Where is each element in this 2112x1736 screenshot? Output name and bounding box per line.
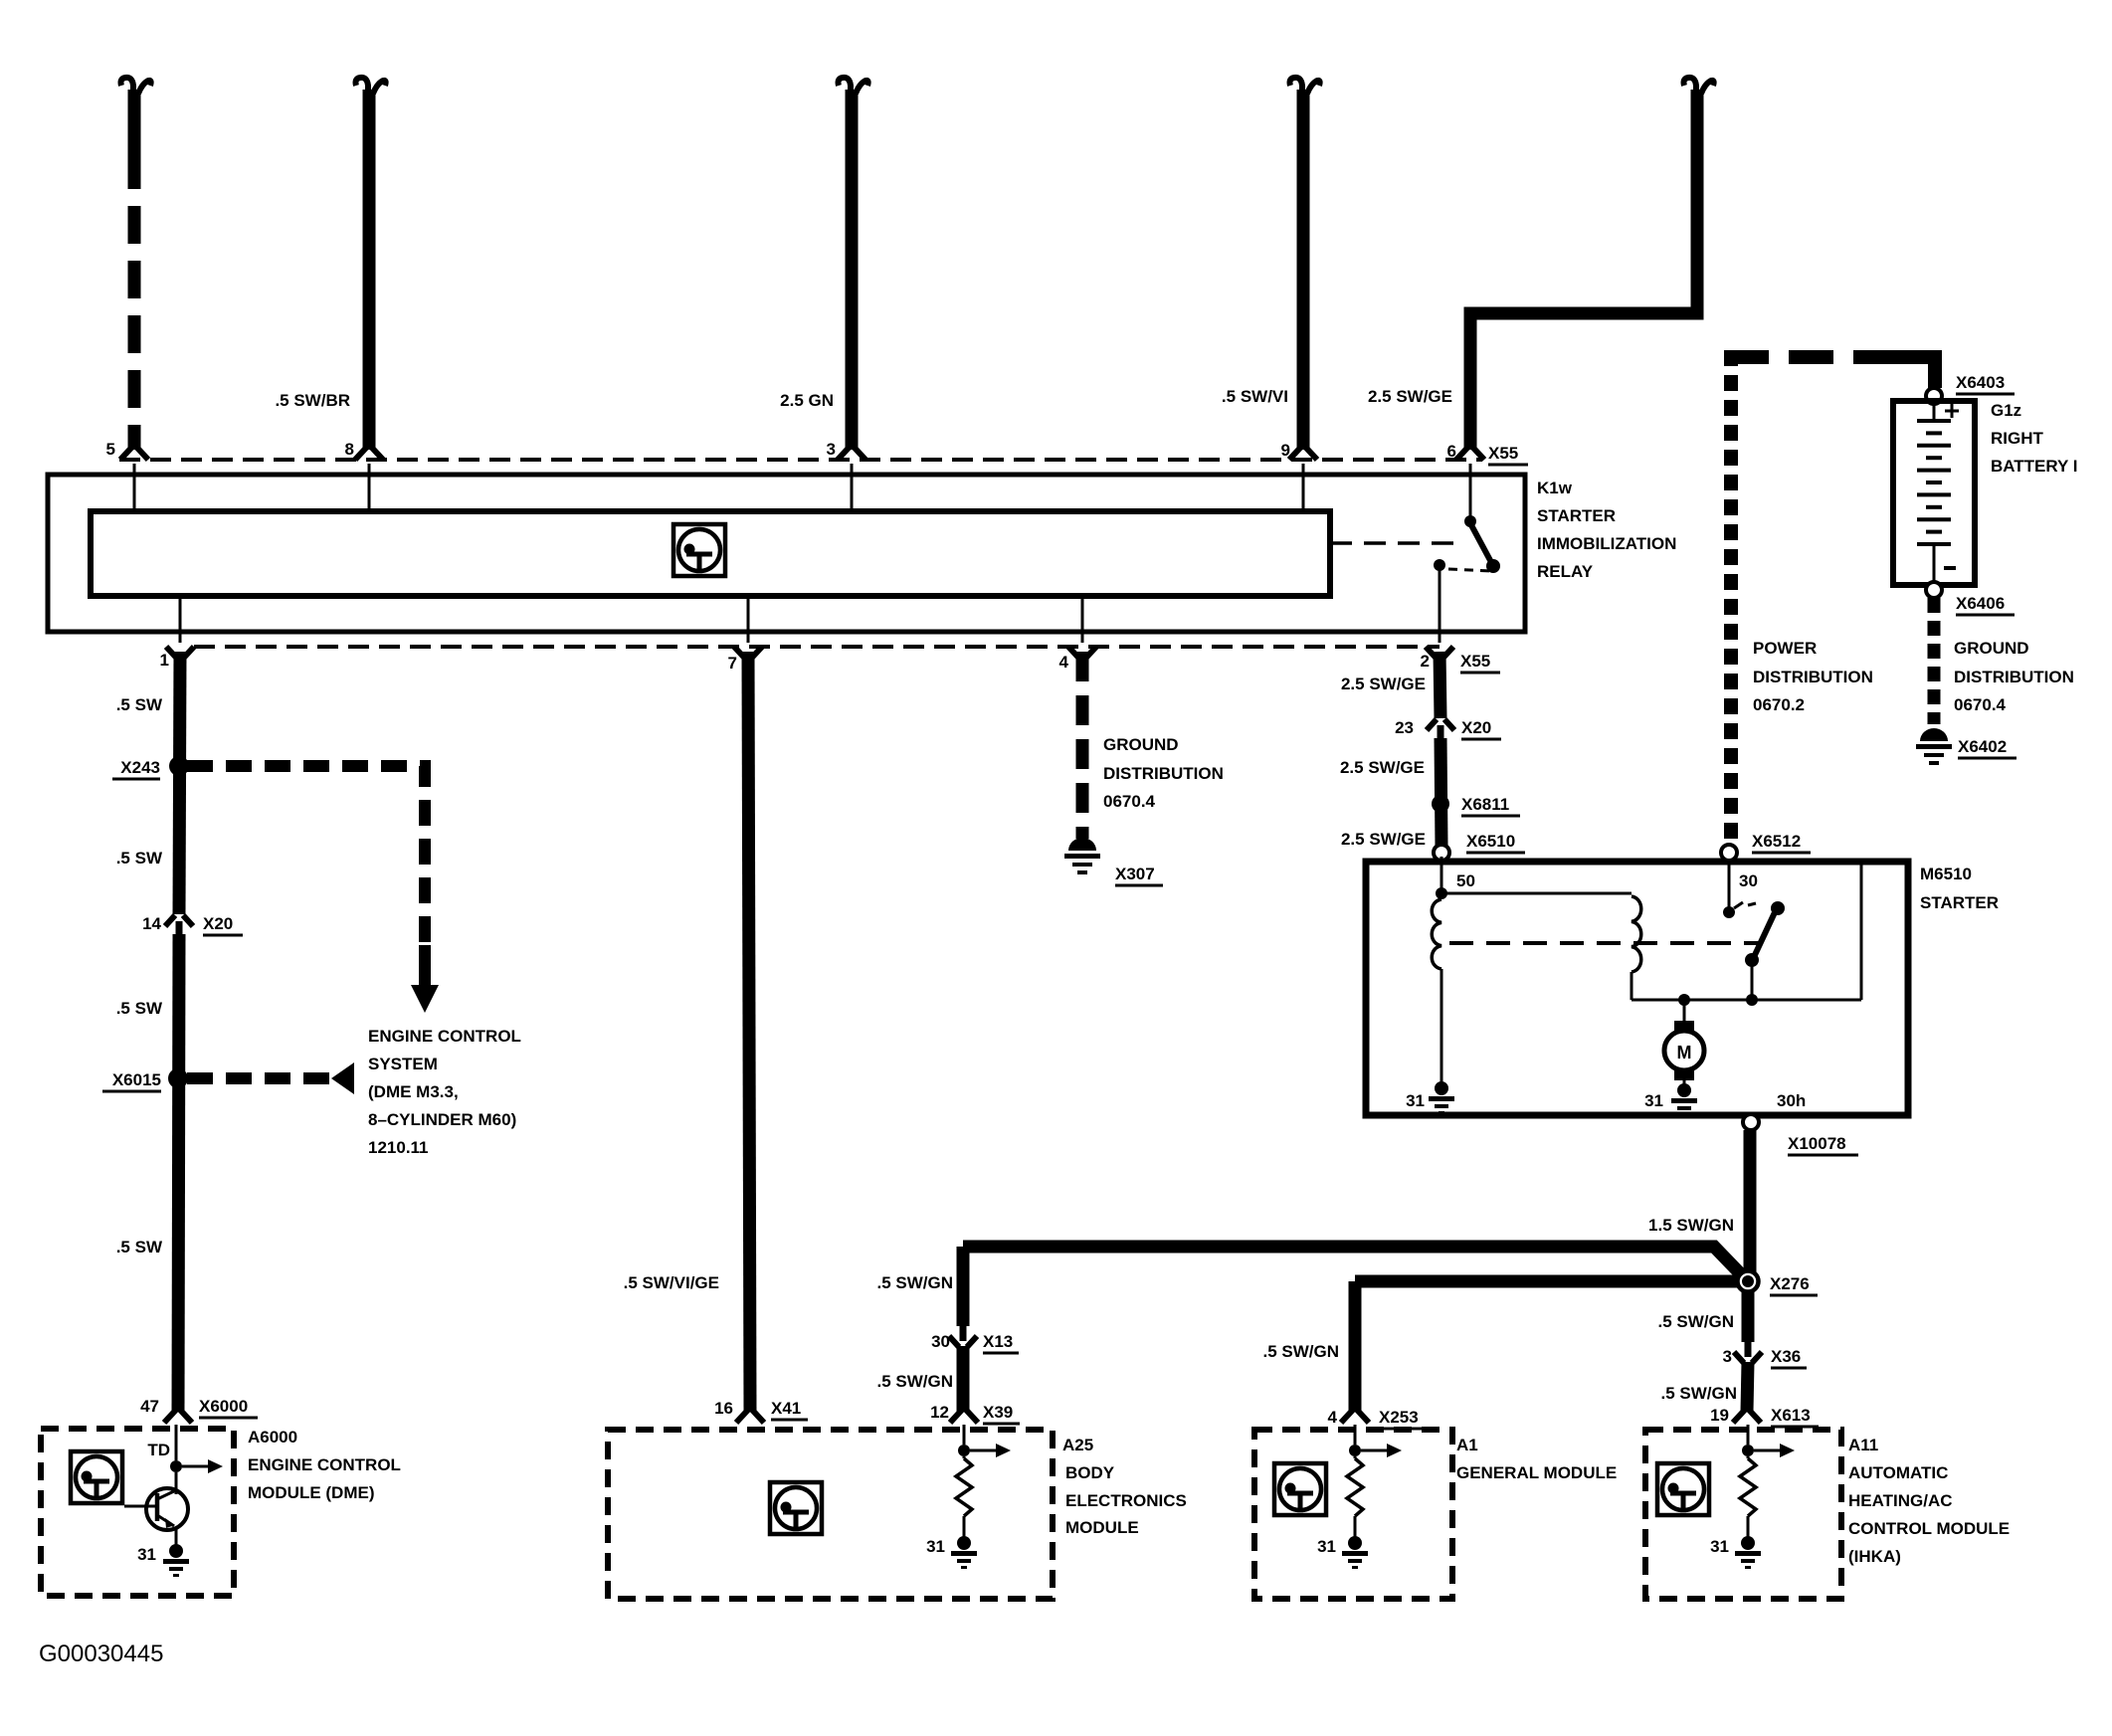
svg-text:ENGINE CONTROL: ENGINE CONTROL <box>368 1027 521 1046</box>
connector line X55 (top) <box>119 458 1482 462</box>
svg-text:X276: X276 <box>1770 1274 1810 1293</box>
svg-text:19: 19 <box>1710 1406 1729 1425</box>
svg-text:2: 2 <box>1421 652 1430 671</box>
starter motor M <box>1664 1000 1704 1086</box>
svg-text:2.5 GN: 2.5 GN <box>780 391 834 410</box>
svg-text:X243: X243 <box>120 758 160 777</box>
svg-text:16: 16 <box>714 1399 733 1418</box>
wire TD node <box>175 1425 178 1460</box>
starter pin 50 node <box>1440 857 1443 893</box>
svg-text:G1z: G1z <box>1991 401 2021 420</box>
svg-text:4: 4 <box>1059 653 1069 672</box>
svg-text:31: 31 <box>1644 1091 1663 1110</box>
battery G1z box <box>1893 401 1975 585</box>
svg-text:STARTER: STARTER <box>1537 506 1616 525</box>
svg-text:3: 3 <box>827 440 836 459</box>
svg-text:X10078: X10078 <box>1788 1134 1846 1153</box>
svg-text:STARTER: STARTER <box>1920 893 1999 912</box>
svg-text:X39: X39 <box>983 1403 1013 1422</box>
svg-text:1210.11: 1210.11 <box>368 1138 429 1157</box>
svg-text:7: 7 <box>728 654 737 673</box>
svg-text:47: 47 <box>140 1397 159 1416</box>
svg-text:.5 SW/GN: .5 SW/GN <box>1657 1312 1734 1331</box>
relay mechanical link (dashed) <box>1330 541 1459 545</box>
svg-text:BATTERY I: BATTERY I <box>1991 457 2078 476</box>
svg-text:8–CYLINDER M60): 8–CYLINDER M60) <box>368 1110 516 1129</box>
label X253 <box>1379 1408 1427 1429</box>
wire pin 7 column (.5 SW/VI/GE) <box>734 647 764 1423</box>
svg-text:X253: X253 <box>1379 1408 1419 1427</box>
label X6402 <box>1958 737 2016 758</box>
starter mechanical link (dashed) <box>1449 941 1763 945</box>
relay switch lower contact <box>1434 559 1445 571</box>
labels A25 BODY ELECTRONICS MODULE <box>1062 1436 1187 1537</box>
svg-text:14: 14 <box>142 914 161 933</box>
label X20 (pin 23) <box>1461 718 1501 739</box>
connector X13 <box>949 1336 977 1347</box>
terminal X10078 <box>1743 1114 1759 1130</box>
connector line X55 (bottom) <box>194 645 1440 649</box>
svg-text:.5 SW/VI/GE: .5 SW/VI/GE <box>624 1273 719 1292</box>
svg-text:GENERAL MODULE: GENERAL MODULE <box>1456 1463 1617 1482</box>
label X10078 <box>1788 1134 1858 1155</box>
ground 31 (A11) <box>1735 1536 1761 1569</box>
svg-text:A6000: A6000 <box>248 1428 297 1447</box>
terminal X6406 <box>1926 582 1942 598</box>
relay K1w logo <box>673 524 725 576</box>
svg-text:X6015: X6015 <box>112 1070 161 1089</box>
label X6512 <box>1752 832 1811 853</box>
relay K1w inner (coil) box <box>91 511 1330 596</box>
node X6811 <box>1432 795 1449 813</box>
starter inner right link <box>1860 865 1863 1000</box>
labels G1z RIGHT BATTERY I <box>1991 401 2078 476</box>
arrow pin 12 (A25) <box>970 1444 1011 1457</box>
svg-text:X20: X20 <box>1461 718 1491 737</box>
node X243 <box>169 756 189 776</box>
labels M6510 STARTER <box>1920 865 1999 912</box>
ground 31 (A1) <box>1342 1536 1368 1569</box>
svg-text:A11: A11 <box>1848 1436 1878 1454</box>
wire feed pin 8 (.5 SW/BR) <box>355 78 386 460</box>
label X6406 <box>1956 594 2015 615</box>
svg-text:RELAY: RELAY <box>1537 562 1594 581</box>
svg-text:3: 3 <box>1723 1347 1732 1366</box>
svg-text:HEATING/AC: HEATING/AC <box>1848 1491 1953 1510</box>
svg-text:31: 31 <box>1317 1537 1336 1556</box>
label ENGINE CONTROL SYSTEM (DME M3.3, 8-CYLINDER M60) 1210.11 <box>368 1027 521 1157</box>
svg-text:.5 SW: .5 SW <box>116 999 163 1018</box>
arrow pin 4 (A1) <box>1361 1444 1402 1457</box>
ground X6402 <box>1916 728 1952 765</box>
svg-text:.5 SW/GN: .5 SW/GN <box>1262 1342 1339 1361</box>
ground 31 (A25) <box>951 1536 977 1569</box>
wire feed pin 3 (2.5 GN) <box>838 78 868 460</box>
labels A6000 ENGINE CONTROL MODULE (DME) <box>248 1428 401 1502</box>
relay switch pin 6 stub <box>1469 464 1472 517</box>
wire feed pin 5 (dashed) <box>120 78 151 460</box>
relay pin 5 stub <box>133 464 136 511</box>
label X39 <box>983 1403 1020 1424</box>
svg-text:8: 8 <box>345 440 354 459</box>
svg-text:G00030445: G00030445 <box>39 1640 163 1667</box>
resistor (A25) <box>963 1456 966 1458</box>
label X36 <box>1771 1347 1807 1368</box>
svg-text:BODY: BODY <box>1065 1463 1115 1482</box>
svg-text:31: 31 <box>926 1537 945 1556</box>
node X276 <box>1738 1271 1759 1292</box>
svg-text:1: 1 <box>160 651 169 670</box>
connector X20 (pin 23) <box>1427 719 1454 730</box>
label GROUND DISTRIBUTION 0670.4 (battery) <box>1954 639 2074 714</box>
relay pin 4 stub <box>1081 596 1084 643</box>
node X6015 <box>168 1068 188 1088</box>
svg-text:2.5 SW/GE: 2.5 SW/GE <box>1341 830 1426 849</box>
svg-text:DISTRIBUTION: DISTRIBUTION <box>1103 764 1224 783</box>
svg-text:0670.4: 0670.4 <box>1103 792 1156 811</box>
wire pin 4 column (dashed to ground) <box>1068 647 1096 839</box>
label POWER DISTRIBUTION 0670.2 <box>1753 639 1873 714</box>
junction switch output <box>1746 994 1758 1006</box>
wire battery to ground (dashed) <box>1928 598 1941 724</box>
label X6403 <box>1956 373 2015 394</box>
svg-text:X55: X55 <box>1488 444 1518 463</box>
svg-text:M6510: M6510 <box>1920 865 1972 883</box>
label X55 (top) <box>1488 444 1528 465</box>
starter M6510 box <box>1366 862 1908 1115</box>
svg-text:GROUND: GROUND <box>1103 735 1179 754</box>
wire branch to A25 (.5 SW/GN) <box>963 1247 1741 1326</box>
svg-text:X6512: X6512 <box>1752 832 1801 851</box>
label X276 <box>1770 1274 1818 1295</box>
resistor (A11) <box>1747 1456 1750 1458</box>
relay switch wire to pin 2 <box>1439 567 1441 643</box>
module A25 box <box>608 1430 1053 1599</box>
svg-text:X13: X13 <box>983 1332 1013 1351</box>
ground 31 (motor) <box>1671 1083 1697 1116</box>
wire X36 to A11 <box>1733 1362 1761 1423</box>
svg-text:30: 30 <box>1739 871 1758 890</box>
svg-text:2.5 SW/GE: 2.5 SW/GE <box>1340 758 1425 777</box>
starter solenoid coil 2 <box>1632 896 1641 972</box>
svg-text:RIGHT: RIGHT <box>1991 429 2044 448</box>
wire feed pin 6 (2.5 SW/GE) <box>1456 78 1714 460</box>
wire branch to A1 (.5 SW/GN) <box>1341 1281 1739 1423</box>
svg-text:(DME M3.3,: (DME M3.3, <box>368 1082 459 1101</box>
svg-text:X36: X36 <box>1771 1347 1801 1366</box>
wire pin 2 column (2.5 SW/GE) <box>1426 647 1453 846</box>
svg-text:23: 23 <box>1395 718 1414 737</box>
wire pin 19 node (A11) <box>1747 1425 1750 1445</box>
svg-text:31: 31 <box>1406 1091 1425 1110</box>
wire 30h to X276 (1.5 SW/GN) <box>1744 1130 1757 1275</box>
module A1 box <box>1254 1430 1452 1599</box>
svg-text:ELECTRONICS: ELECTRONICS <box>1065 1491 1187 1510</box>
module A6000 box (DME) <box>41 1429 234 1596</box>
arrow TD <box>182 1459 223 1473</box>
module A1 logo <box>1274 1463 1326 1515</box>
svg-text:31: 31 <box>1710 1537 1729 1556</box>
svg-text:12: 12 <box>930 1403 949 1422</box>
svg-text:MODULE (DME): MODULE (DME) <box>248 1483 374 1502</box>
svg-text:X307: X307 <box>1115 865 1155 883</box>
wire motor bus <box>1632 999 1861 1002</box>
relay pin 9 stub <box>1302 464 1305 511</box>
label X6510 <box>1466 832 1525 853</box>
svg-text:X6000: X6000 <box>199 1397 248 1416</box>
svg-text:.5 SW: .5 SW <box>116 695 163 714</box>
module A11 box <box>1645 1430 1841 1599</box>
svg-text:5: 5 <box>106 440 115 459</box>
wire branch X243 (dashed) with arrow <box>187 766 439 1013</box>
svg-text:M: M <box>1677 1043 1692 1062</box>
module A25 logo <box>770 1482 822 1534</box>
svg-text:30h: 30h <box>1777 1091 1806 1110</box>
svg-text:2.5 SW/GE: 2.5 SW/GE <box>1368 387 1452 406</box>
wire feed pin 9 (.5 SW/VI) <box>1289 78 1320 460</box>
module A6000 logo <box>71 1451 122 1503</box>
svg-text:DISTRIBUTION: DISTRIBUTION <box>1954 668 2074 686</box>
label X6015 <box>102 1070 161 1091</box>
transistor Q (DME) <box>124 1472 188 1546</box>
labels A1 GENERAL MODULE <box>1456 1436 1617 1482</box>
svg-text:TD: TD <box>147 1441 170 1459</box>
labels K1w STARTER IMMOBILIZATION RELAY <box>1537 479 1676 581</box>
svg-text:X55: X55 <box>1460 652 1490 671</box>
svg-text:(IHKA): (IHKA) <box>1848 1547 1901 1566</box>
relay pin 7 stub <box>747 596 750 643</box>
labels A11 AUTOMATIC HEATING/AC CONTROL MODULE (IHKA) <box>1848 1436 2010 1566</box>
svg-text:.5 SW: .5 SW <box>116 1238 163 1256</box>
svg-text:.5 SW/GN: .5 SW/GN <box>1660 1384 1737 1403</box>
svg-text:.5 SW/GN: .5 SW/GN <box>876 1372 953 1391</box>
relay pin 1 stub <box>179 596 182 643</box>
svg-text:.5 SW/GN: .5 SW/GN <box>876 1273 953 1292</box>
wire branch X6015 (dashed) with arrow <box>187 1062 354 1094</box>
svg-text:31: 31 <box>137 1545 156 1564</box>
svg-text:2.5 SW/GE: 2.5 SW/GE <box>1341 675 1426 693</box>
wire coil1 to ground <box>1440 969 1443 1084</box>
ground 31 (DME) <box>163 1544 189 1577</box>
terminal X6510 <box>1434 845 1449 861</box>
svg-text:X6402: X6402 <box>1958 737 2007 756</box>
label X6000 <box>199 1397 258 1418</box>
svg-text:.5 SW: .5 SW <box>116 849 163 868</box>
terminal X6512 <box>1721 845 1737 861</box>
label X613 <box>1771 1406 1819 1427</box>
label X41 <box>771 1399 808 1420</box>
terminal X6403 <box>1926 388 1942 404</box>
svg-text:.5 SW/VI: .5 SW/VI <box>1222 387 1288 406</box>
label X20 (pin 14) <box>203 914 243 935</box>
svg-text:A1: A1 <box>1456 1436 1478 1454</box>
svg-text:X6510: X6510 <box>1466 832 1515 851</box>
battery cells <box>1917 404 1956 582</box>
wire pin50 to coil 2 <box>1441 892 1632 895</box>
connector X20 (pin 14) <box>165 915 193 926</box>
junction motor <box>1678 994 1690 1006</box>
svg-text:K1w: K1w <box>1537 479 1573 497</box>
svg-text:0670.4: 0670.4 <box>1954 695 2007 714</box>
starter contact 30 <box>1728 860 1731 907</box>
wire pin 12 node (A25) <box>963 1425 966 1445</box>
module A11 logo <box>1657 1463 1709 1515</box>
svg-text:X6811: X6811 <box>1461 795 1509 814</box>
svg-text:X613: X613 <box>1771 1406 1811 1425</box>
svg-text:CONTROL MODULE: CONTROL MODULE <box>1848 1519 2010 1538</box>
svg-text:X41: X41 <box>771 1399 801 1418</box>
starter switch blade wire <box>1751 960 1754 1000</box>
relay switch upper contact <box>1464 515 1476 527</box>
svg-text:.5 SW/BR: .5 SW/BR <box>275 391 350 410</box>
svg-text:30: 30 <box>931 1332 950 1351</box>
relay pin 3 stub <box>851 464 854 511</box>
relay switch blade <box>1470 523 1492 564</box>
label X243 <box>112 758 160 779</box>
starter switch blade <box>1771 901 1785 915</box>
wire X276 to A11 (.5 SW/GN) <box>1742 1291 1755 1342</box>
svg-text:DISTRIBUTION: DISTRIBUTION <box>1753 668 1873 686</box>
svg-text:IMMOBILIZATION: IMMOBILIZATION <box>1537 534 1676 553</box>
svg-text:POWER: POWER <box>1753 639 1817 658</box>
wire pin 1 column (.5 SW) <box>164 647 194 1423</box>
connector X36 <box>1734 1352 1762 1363</box>
svg-text:9: 9 <box>1281 441 1290 460</box>
relay switch contact dash <box>1448 569 1492 571</box>
label X6811 <box>1461 795 1520 816</box>
svg-text:X6403: X6403 <box>1956 373 2005 392</box>
svg-text:X6406: X6406 <box>1956 594 2005 613</box>
svg-text:GROUND: GROUND <box>1954 639 2029 658</box>
svg-text:0670.2: 0670.2 <box>1753 695 1805 714</box>
resistor (A1) <box>1354 1456 1357 1458</box>
arrow pin 19 (A11) <box>1754 1444 1795 1457</box>
label X307 <box>1115 865 1163 885</box>
svg-text:X20: X20 <box>203 914 233 933</box>
svg-text:A25: A25 <box>1062 1436 1093 1454</box>
ground X307 <box>1064 838 1100 874</box>
svg-text:AUTOMATIC: AUTOMATIC <box>1848 1463 1948 1482</box>
wire power distribution (dashed) <box>1724 350 1935 842</box>
svg-text:50: 50 <box>1456 871 1475 890</box>
relay pin 8 stub <box>368 464 371 511</box>
wire coil2 down <box>1631 972 1633 1000</box>
label GROUND DISTRIBUTION 0670.4 (X307) <box>1103 735 1224 811</box>
svg-text:SYSTEM: SYSTEM <box>368 1055 438 1073</box>
starter switch tick <box>1734 902 1743 908</box>
starter solenoid coil 1 <box>1432 899 1441 969</box>
battery plus sign <box>1945 410 1959 413</box>
wire pin 4 node (A1) <box>1354 1425 1357 1445</box>
svg-text:1.5 SW/GN: 1.5 SW/GN <box>1648 1216 1734 1235</box>
svg-text:ENGINE CONTROL: ENGINE CONTROL <box>248 1455 401 1474</box>
relay K1w outer box <box>48 475 1525 632</box>
wire X13 to A25 <box>950 1346 978 1423</box>
svg-text:4: 4 <box>1328 1408 1338 1427</box>
label X13 <box>983 1332 1019 1353</box>
label X55 (bottom) <box>1460 652 1500 673</box>
svg-text:MODULE: MODULE <box>1065 1518 1139 1537</box>
ground 31 (coil) <box>1429 1081 1454 1114</box>
